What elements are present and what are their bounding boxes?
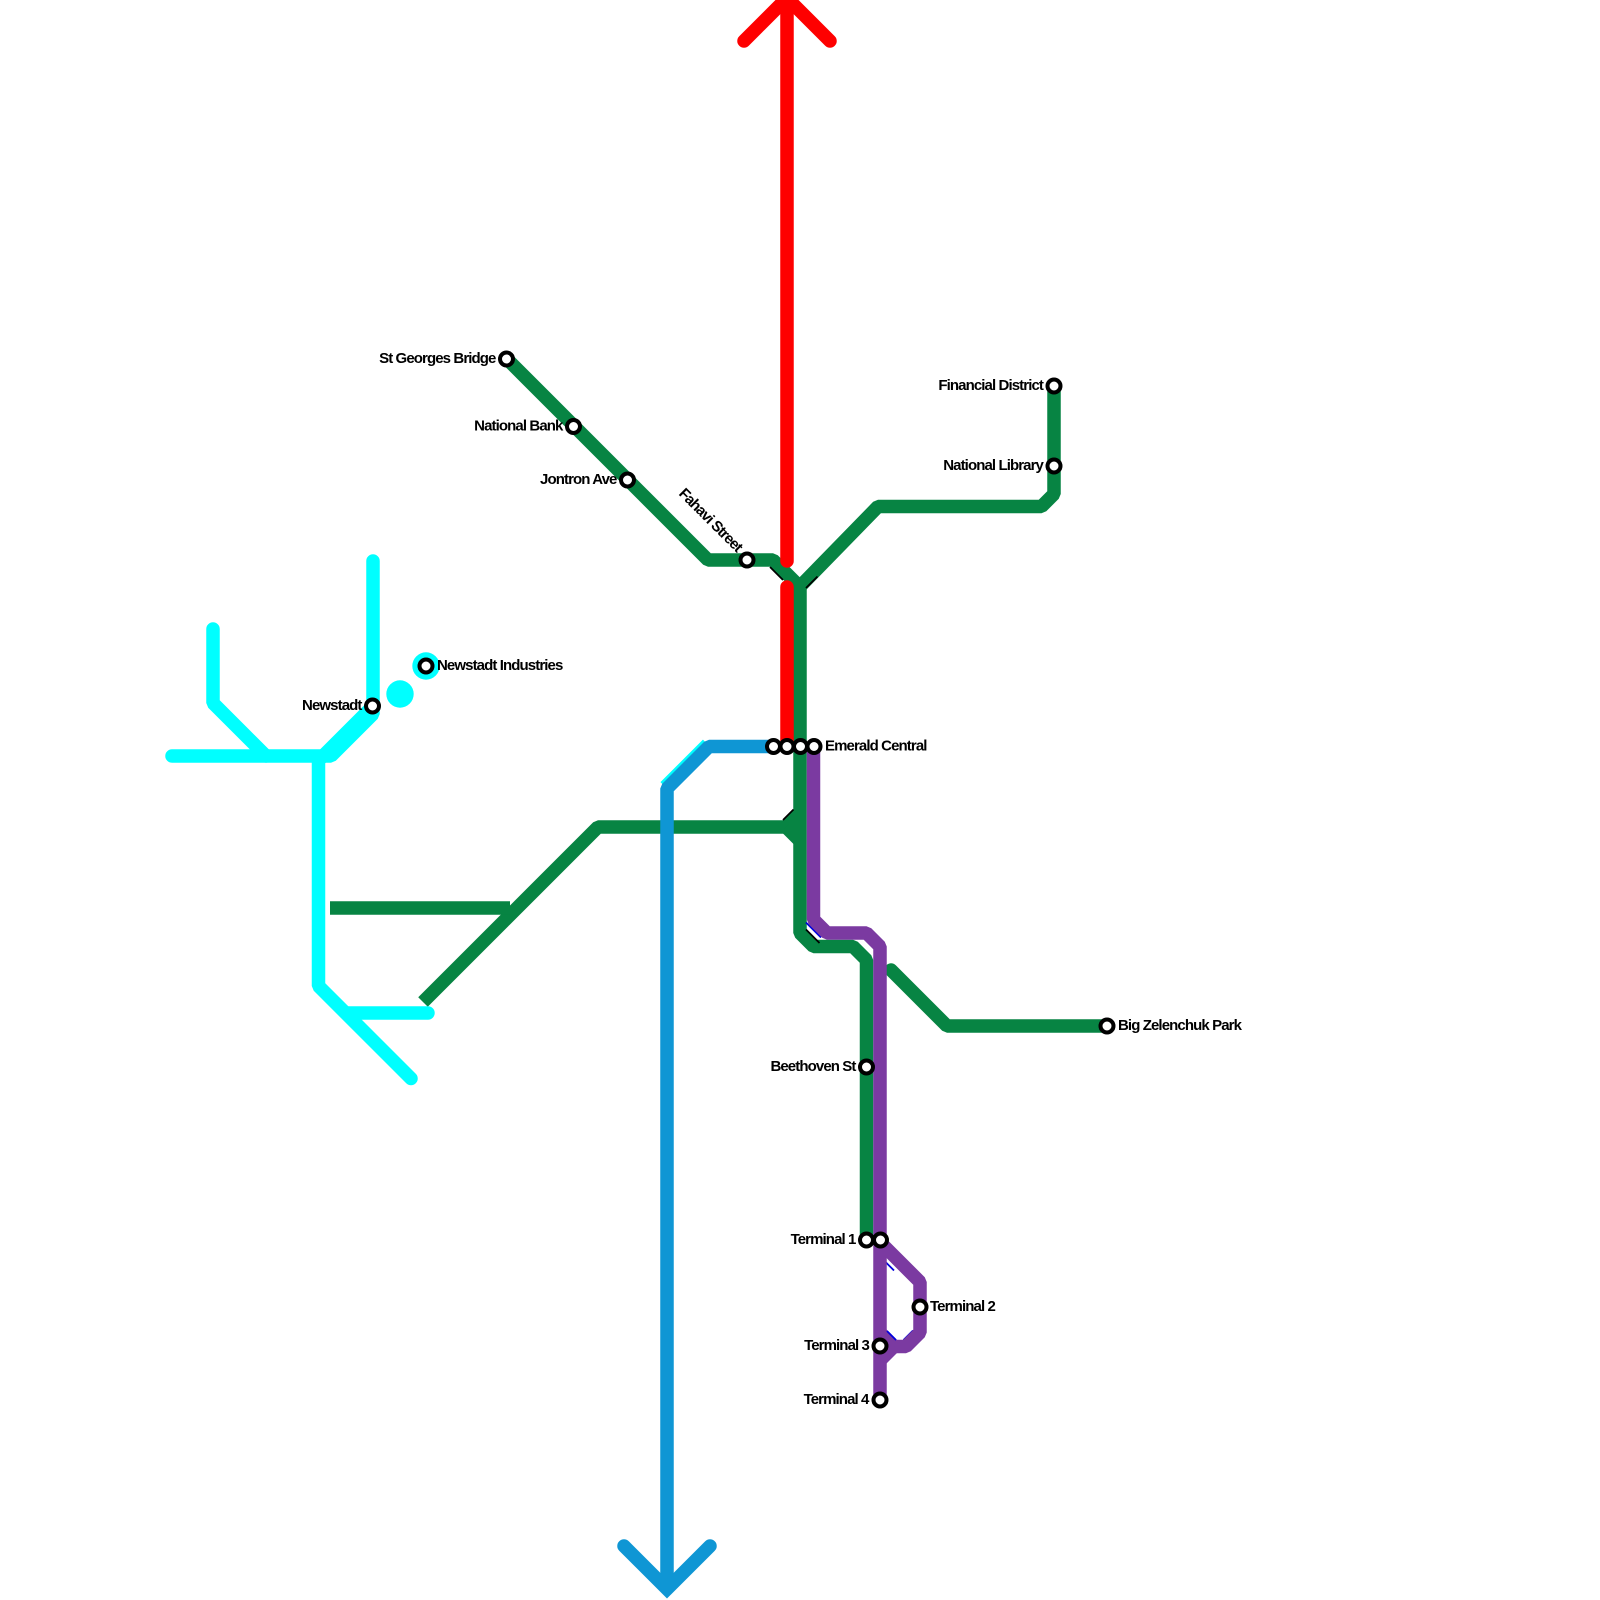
svg-text:Jontron Ave: Jontron Ave xyxy=(540,471,617,488)
station National Bank xyxy=(567,420,580,433)
svg-text:Beethoven St: Beethoven St xyxy=(770,1058,856,1075)
blue line: Emerald Central to south arrow xyxy=(667,747,770,1589)
purple wye arm down at Terminal 3 xyxy=(881,1347,894,1360)
station Emerald Central (4 interchange circles) xyxy=(767,740,780,753)
blue casing sliver at T3 wye notch left xyxy=(887,1331,896,1340)
cyan casing sliver along blue bend xyxy=(662,741,705,784)
cyan dot between Newstadt and Newstadt Industries xyxy=(386,680,413,707)
station Terminal 2 xyxy=(914,1301,927,1314)
black casing sliver at green jog notch xyxy=(806,930,820,944)
purple wye arm up at Terminal 3 xyxy=(881,1334,894,1347)
blue casing sliver at terminal loop bottom xyxy=(904,1331,914,1341)
green line: Big Zelenchuk Park branch xyxy=(891,970,1108,1026)
green line: west branch horizontal y=827 with diagonal to (420,1000) xyxy=(423,827,791,1002)
red arrow head xyxy=(744,0,830,41)
red line: lower segment to Emerald Central xyxy=(780,587,794,746)
blue casing sliver at purple jog notch xyxy=(806,923,821,938)
cyan disc behind Newstadt Industries xyxy=(412,652,439,679)
cyan line V2: northwest stub xyxy=(213,629,266,756)
black casing sliver at G2 lower edge xyxy=(806,577,818,589)
svg-text:Terminal 4: Terminal 4 xyxy=(804,1391,870,1408)
svg-text:Newstadt: Newstadt xyxy=(302,697,362,714)
green wye bevel up to trunk xyxy=(786,813,800,827)
green wye bevel down to trunk xyxy=(786,827,800,841)
svg-text:Financial District: Financial District xyxy=(938,377,1044,394)
station Newstadt Industries xyxy=(420,660,433,673)
station Fahavi Street (rotated label) xyxy=(741,554,754,567)
cyan line D: short horizontal branch xyxy=(346,1006,428,1020)
svg-text:St Georges Bridge: St Georges Bridge xyxy=(379,350,496,367)
svg-text:National Library: National Library xyxy=(943,457,1044,474)
station St Georges Bridge xyxy=(500,353,513,366)
blue casing sliver at terminal loop top xyxy=(886,1262,895,1271)
svg-text:Terminal 3: Terminal 3 xyxy=(804,1337,869,1354)
svg-text:Terminal 2: Terminal 2 xyxy=(930,1298,995,1315)
station Big Zelenchuk Park xyxy=(1101,1020,1114,1033)
station Financial District xyxy=(1048,380,1061,393)
black casing sliver at west-branch wye xyxy=(783,810,794,821)
red line: upper segment with top arrow xyxy=(780,0,794,561)
green line: short west stub y=908 xyxy=(330,901,510,915)
station Terminal 1 (2 interchange circles) xyxy=(860,1234,873,1247)
svg-text:Terminal 1: Terminal 1 xyxy=(791,1231,856,1248)
purple line: terminal loop via Terminal 2 xyxy=(880,1242,920,1347)
station Terminal 4 xyxy=(874,1394,887,1407)
svg-text:National Bank: National Bank xyxy=(474,418,564,435)
station Jontron Ave xyxy=(621,474,634,487)
green line: main trunk St Georges Bridge to Terminal 1 xyxy=(507,359,867,1241)
purple line: main Emerald Central to Terminal 4 xyxy=(814,745,881,1402)
station National Library xyxy=(1048,460,1061,473)
station Newstadt xyxy=(366,700,379,713)
cyan line B: Newstadt to southern tail xyxy=(319,706,412,1079)
svg-text:Newstadt Industries: Newstadt Industries xyxy=(437,657,563,674)
blue arrow head xyxy=(624,1546,710,1589)
station Terminal 3 xyxy=(874,1340,887,1353)
black casing sliver at Fahavi wye xyxy=(770,567,783,580)
green line: Financial District branch xyxy=(800,386,1054,587)
cyan line A: west horizontal to Newstadt vertical xyxy=(172,561,373,756)
station Beethoven St xyxy=(860,1061,873,1074)
svg-text:Emerald Central: Emerald Central xyxy=(825,738,927,755)
svg-text:Big Zelenchuk Park: Big Zelenchuk Park xyxy=(1118,1017,1243,1034)
